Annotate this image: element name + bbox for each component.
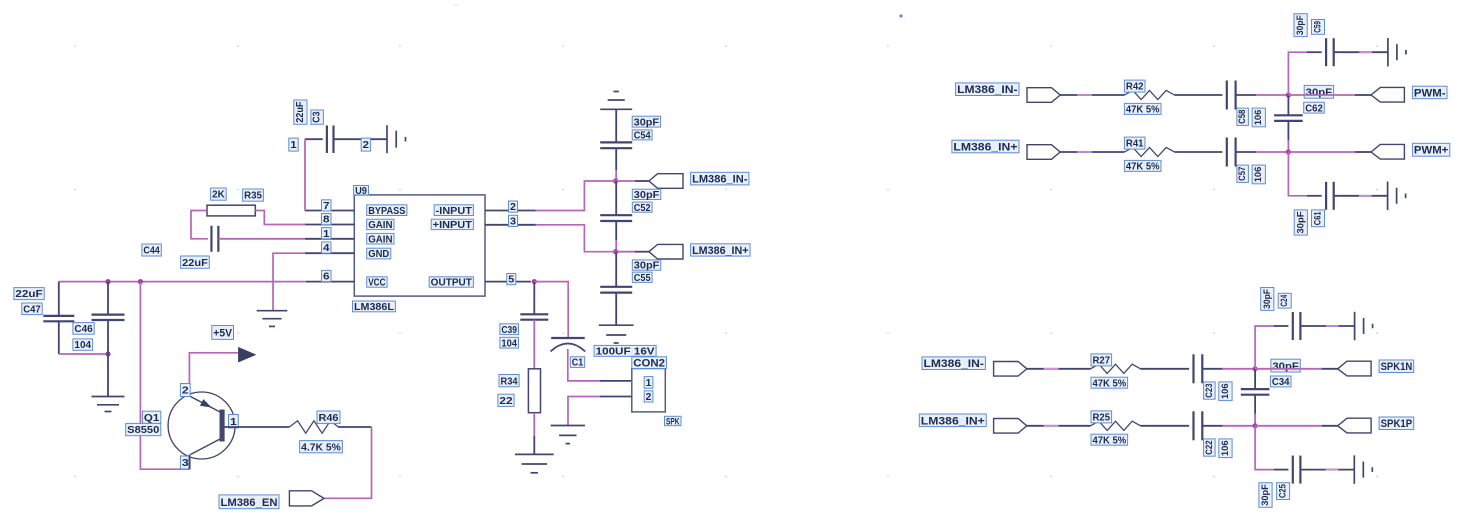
wire junction row1 to PWM- port xyxy=(1288,94,1355,96)
wire R35 right to U9 pin 8 xyxy=(255,211,304,225)
U9 pin 1 stub xyxy=(305,238,355,240)
svg-text:PWM-: PWM- xyxy=(1414,87,1446,99)
svg-text:6: 6 xyxy=(323,272,330,283)
wire C59 to ground xyxy=(1334,51,1388,53)
svg-text:R27: R27 xyxy=(1093,356,1111,367)
capacitor C24 plates xyxy=(1292,312,1294,340)
pin number 1 of CON2 xyxy=(644,377,653,389)
svg-text:+5V: +5V xyxy=(213,327,232,339)
inverted ground above C54 xyxy=(600,108,632,110)
refdes C47 xyxy=(22,303,42,315)
wire R25 to C22 xyxy=(1141,425,1190,427)
refdes R42 xyxy=(1124,80,1145,93)
VCC rail wire to U9 pin 6 xyxy=(59,281,306,283)
value 4.7K 5% of R46 xyxy=(300,441,343,454)
junction node row4 xyxy=(1253,423,1258,428)
ground right of C25 xyxy=(1353,455,1355,484)
wire junction row2 down to C61 branch xyxy=(1288,152,1307,196)
value 22 of R34 xyxy=(498,394,514,407)
wire to C61 xyxy=(1307,195,1322,197)
svg-text:VCC: VCC xyxy=(368,278,385,289)
resistor R34 body xyxy=(528,369,540,413)
U9 pin name BYPASS xyxy=(367,205,407,217)
svg-text:3: 3 xyxy=(182,458,189,469)
port LM386_IN+ tag (left schematic) xyxy=(649,244,683,259)
wire U9 pin5 junction xyxy=(532,279,537,284)
U9 pin 3 stub xyxy=(485,224,536,226)
wire U9 pin 2 to junction xyxy=(536,181,616,211)
U9 pin name GAIN (2) xyxy=(367,233,394,245)
refdes C34 xyxy=(1270,376,1291,388)
svg-text:R41: R41 xyxy=(1126,139,1144,150)
pin number 2 of CON2 xyxy=(644,391,653,403)
U9 pin name GND xyxy=(367,248,391,260)
pin number 2 of Q1 xyxy=(180,384,190,397)
svg-text:C25: C25 xyxy=(1278,484,1289,498)
U9 pin name -INPUT xyxy=(434,205,473,217)
refdes R46 xyxy=(317,411,340,424)
svg-text:PWM+: PWM+ xyxy=(1414,145,1448,157)
value 106 of C22 (rotated) xyxy=(1219,439,1232,458)
capacitor C46 bottom lead xyxy=(107,320,109,397)
wire junction row4 down to C25 branch xyxy=(1255,426,1274,470)
wire input tag to R27 xyxy=(1027,368,1091,370)
svg-text:R42: R42 xyxy=(1126,82,1144,93)
svg-text:C58: C58 xyxy=(1237,110,1248,124)
wire pin5 junction to capacitor C1 xyxy=(534,282,568,338)
svg-text:47K 5%: 47K 5% xyxy=(1126,105,1160,116)
wire C58 to junction row1 xyxy=(1236,94,1256,96)
svg-text:22uF: 22uF xyxy=(182,258,208,269)
value 106 of C58 (rotated) xyxy=(1252,108,1265,127)
pin number 2 xyxy=(509,201,518,213)
value 47K 5% of R25 xyxy=(1091,434,1128,446)
svg-text:C23: C23 xyxy=(1204,383,1215,397)
port input tag row4 xyxy=(994,419,1027,434)
svg-text:1: 1 xyxy=(646,378,652,389)
wire R34 to ground xyxy=(533,413,535,436)
svg-text:30pF: 30pF xyxy=(1262,289,1273,309)
wire R27 to C23 xyxy=(1141,368,1190,370)
svg-text:-INPUT: -INPUT xyxy=(436,206,472,217)
value 104 of C46 xyxy=(73,339,93,351)
capacitor C39 plates xyxy=(520,313,548,315)
svg-text:30pF: 30pF xyxy=(1272,360,1299,372)
refdes C54 xyxy=(632,130,652,142)
svg-text:106: 106 xyxy=(1220,383,1231,399)
svg-text:104: 104 xyxy=(74,340,91,351)
wire C3 pin1 down to U9 pin 7 xyxy=(304,139,306,210)
refdes C25 (rotated) xyxy=(1277,483,1290,500)
value 47K 5% of R27 xyxy=(1091,377,1128,389)
Q1 pin 2 wire to +5V xyxy=(189,353,238,397)
wire C39 to R34 xyxy=(533,320,535,369)
ground right of C59 xyxy=(1387,38,1389,66)
value 30pF of C34 xyxy=(1271,359,1300,372)
svg-text:30pF: 30pF xyxy=(1295,211,1306,233)
pin number 3 xyxy=(509,215,518,227)
net label LM386_IN+ (left schematic) xyxy=(691,244,751,257)
svg-text:U9: U9 xyxy=(355,186,367,197)
ground under R34 xyxy=(515,453,554,455)
svg-text:GAIN: GAIN xyxy=(368,220,392,231)
wire U9 pin 3 to junction xyxy=(536,225,616,252)
capacitor C22 plates xyxy=(1192,411,1194,440)
port SPK1N tag xyxy=(1338,361,1371,376)
svg-text:47K 5%: 47K 5% xyxy=(1126,162,1160,173)
wire to C59 xyxy=(1307,51,1322,53)
capacitor C55 plates xyxy=(600,286,632,288)
pin number 8 xyxy=(322,214,332,226)
svg-text:100UF 16V: 100UF 16V xyxy=(596,346,655,357)
svg-text:BYPASS: BYPASS xyxy=(368,206,405,217)
svg-text:GND: GND xyxy=(368,249,389,260)
refdes C61 (rotated) xyxy=(1312,210,1325,227)
refdes C44 xyxy=(142,244,161,257)
svg-text:C44: C44 xyxy=(143,246,160,257)
wire C47 bottom to C46 bottom xyxy=(59,353,108,355)
resistor R35 body xyxy=(207,205,255,216)
svg-text:106: 106 xyxy=(1220,440,1231,456)
pin number 3 of Q1 xyxy=(180,456,190,469)
value 104 of C39 xyxy=(500,337,519,349)
+5V power arrow xyxy=(238,347,255,362)
wire C44 right to U9 pin 1 xyxy=(218,238,304,240)
wire C1 to CON2 pin 1 xyxy=(568,349,600,381)
U9 pin 7 stub xyxy=(305,210,355,212)
svg-text:30pF: 30pF xyxy=(1260,484,1271,506)
svg-text:106: 106 xyxy=(1253,167,1264,183)
wire input tag to R42 xyxy=(1060,94,1124,96)
wire junction to LM386_IN- port xyxy=(616,180,635,182)
value 30pF of C25 (rotated) xyxy=(1259,483,1272,508)
port LM386_IN- tag (left schematic) xyxy=(649,174,683,189)
wire R41 to C57 xyxy=(1175,151,1223,153)
capacitor C58 plates xyxy=(1226,81,1228,110)
refdes R27 xyxy=(1091,354,1112,367)
capacitor C46 top lead xyxy=(107,282,109,315)
port PWM- tag xyxy=(1371,87,1404,102)
port input tag row3 xyxy=(994,362,1027,377)
value 30pF of C61 (rotated) xyxy=(1294,210,1307,235)
svg-text:LM386_IN-: LM386_IN- xyxy=(692,174,748,186)
refdes C57 (rotated) xyxy=(1237,165,1249,182)
svg-text:LM386_IN+: LM386_IN+ xyxy=(921,415,985,427)
svg-text:R25: R25 xyxy=(1093,413,1111,424)
junction node row3 xyxy=(1253,366,1258,371)
svg-text:2: 2 xyxy=(510,202,516,213)
value 30pF of C54 xyxy=(632,116,660,128)
svg-text:C22: C22 xyxy=(1204,440,1215,454)
value 30pF of C62 xyxy=(1304,85,1333,98)
svg-text:3: 3 xyxy=(510,217,516,228)
svg-text:C24: C24 xyxy=(1279,294,1290,306)
svg-text:1: 1 xyxy=(290,140,297,151)
port input tag row2 xyxy=(1027,145,1060,160)
svg-text:C3: C3 xyxy=(312,111,323,123)
resistor R25 zigzag xyxy=(1091,421,1141,430)
svg-text:R34: R34 xyxy=(501,376,518,387)
svg-text:106: 106 xyxy=(1253,110,1264,126)
capacitor C39 top lead xyxy=(533,282,535,315)
capacitor C59 plates xyxy=(1325,38,1327,66)
value 106 of C23 (rotated) xyxy=(1219,382,1232,401)
wire C22 to junction row4 xyxy=(1202,425,1222,427)
svg-text:C1: C1 xyxy=(572,358,584,369)
wire U9 pin 4 to ground xyxy=(273,253,305,311)
svg-text:1: 1 xyxy=(323,229,330,240)
svg-text:LM386_EN: LM386_EN xyxy=(221,497,278,509)
transistor Q1 emitter line with arrow xyxy=(191,397,222,413)
svg-text:2K: 2K xyxy=(212,190,225,201)
port SPK1P tag xyxy=(1338,418,1371,433)
svg-text:8: 8 xyxy=(323,215,330,226)
net label LM386_IN+ (row4) xyxy=(919,414,986,427)
net label SPK1N xyxy=(1379,360,1414,373)
wire junction to LM386_IN+ port xyxy=(616,251,635,253)
U9 refdes label xyxy=(354,186,369,197)
value 30pF of C24 (rotated) xyxy=(1261,288,1274,311)
svg-text:OUTPUT: OUTPUT xyxy=(431,278,472,289)
svg-text:C52: C52 xyxy=(634,203,651,214)
net label PWM+ xyxy=(1412,143,1449,156)
wire R42 to C58 xyxy=(1175,94,1223,96)
U9 pin name GAIN xyxy=(367,219,394,231)
ground under C46 xyxy=(92,396,125,398)
junction node row2 xyxy=(1286,149,1291,154)
refdes C58 (rotated) xyxy=(1237,108,1249,125)
stray magenta dot xyxy=(899,14,902,17)
svg-text:C57: C57 xyxy=(1237,167,1248,181)
pin number 5 xyxy=(507,274,516,286)
svg-text:104: 104 xyxy=(501,338,517,349)
connector CON2 body xyxy=(632,369,666,412)
Q1 pin 3 stub xyxy=(188,455,190,470)
wire junction row2 to PWM+ port xyxy=(1288,151,1355,153)
net label LM386_IN- (row1) xyxy=(956,83,1019,96)
refdes C22 (rotated) xyxy=(1204,439,1216,456)
wire junction row3 up to C24 branch xyxy=(1255,326,1274,369)
ground right of C24 xyxy=(1354,312,1356,341)
capacitor C47 bottom lead xyxy=(58,321,60,354)
ground under C55 xyxy=(599,324,634,326)
+5V label xyxy=(212,326,234,340)
capacitor C34 top lead xyxy=(1254,369,1256,389)
capacitor C62 top lead xyxy=(1287,95,1289,115)
svg-text:LM386_IN-: LM386_IN- xyxy=(957,84,1018,96)
junction node pin3 net xyxy=(613,249,618,254)
wire junction row4 to SPK1P port xyxy=(1255,425,1322,427)
pin number 2 of C3 xyxy=(361,138,370,151)
U9 pin 4 stub xyxy=(305,252,355,254)
svg-text:C34: C34 xyxy=(1272,377,1290,388)
U9 pin name +INPUT xyxy=(431,219,473,231)
svg-text:C46: C46 xyxy=(74,324,93,335)
svg-text:C62: C62 xyxy=(1305,103,1323,114)
U9 pin 8 stub xyxy=(305,224,355,226)
svg-text:4: 4 xyxy=(323,243,330,254)
capacitor C46 plates xyxy=(92,314,125,316)
port PWM+ tag xyxy=(1371,144,1404,159)
pin number 1 of Q1 xyxy=(229,415,239,429)
ground under pin 4 xyxy=(257,310,288,312)
capacitor C3 pin1 wire xyxy=(305,138,323,140)
port input tag row1 xyxy=(1027,88,1060,103)
part S8550 of Q1 xyxy=(126,423,161,436)
net label LM386_EN xyxy=(219,495,279,509)
capacitor C54 bottom lead xyxy=(615,148,617,170)
net label LM386_IN- (left schematic) xyxy=(691,172,749,185)
wire to C25 xyxy=(1274,469,1289,471)
svg-text:2: 2 xyxy=(646,392,652,403)
refdes C46 xyxy=(73,323,94,335)
wire to C24 xyxy=(1274,325,1289,327)
value 47K 5% of R42 xyxy=(1124,103,1161,115)
pin number 1 of C3 xyxy=(289,138,298,151)
capacitor C57 plates xyxy=(1226,138,1228,167)
wire input tag to R25 xyxy=(1027,425,1091,427)
wire CON2 pin 2 to ground xyxy=(600,396,632,398)
net label LM386_IN+ (row2) xyxy=(952,140,1019,153)
svg-text:7: 7 xyxy=(323,201,330,212)
grid dots xyxy=(74,4,1378,477)
capacitor C54 plates xyxy=(600,141,632,143)
U9 pin 6 stub xyxy=(306,281,355,283)
resistor R42 zigzag xyxy=(1125,90,1175,99)
value 2K of R35 xyxy=(211,188,227,201)
Q1 pin 1 wire to R46 xyxy=(224,426,289,428)
wire junction row3 to SPK1N port xyxy=(1255,368,1322,370)
wire C57 to junction row2 xyxy=(1236,151,1256,153)
capacitor C52 plates xyxy=(600,214,632,216)
refdes C3 (rotated) xyxy=(311,110,324,124)
capacitor C52 bottom lead xyxy=(615,221,617,240)
refdes C55 xyxy=(632,272,652,284)
svg-text:47K 5%: 47K 5% xyxy=(1093,378,1127,389)
refdes C59 (rotated) xyxy=(1312,20,1325,35)
value 22uF of C47 xyxy=(14,288,44,301)
capacitor C55 top lead xyxy=(615,252,617,287)
capacitor C61 plates xyxy=(1325,182,1327,210)
svg-text:C55: C55 xyxy=(634,273,651,284)
svg-text:4.7K 5%: 4.7K 5% xyxy=(301,442,341,453)
capacitor C25 plates xyxy=(1292,456,1294,484)
capacitor C54 top lead xyxy=(615,109,617,142)
value 30pF of C55 xyxy=(632,260,661,272)
ground right of C3 xyxy=(386,125,388,153)
svg-text:30pF: 30pF xyxy=(634,261,660,272)
svg-text:2: 2 xyxy=(363,140,370,151)
refdes C23 (rotated) xyxy=(1204,382,1216,399)
value 30pF of C52 xyxy=(632,189,661,201)
svg-text:SPK: SPK xyxy=(666,416,680,427)
value 106 of C57 (rotated) xyxy=(1252,165,1265,184)
svg-text:LM386_IN+: LM386_IN+ xyxy=(692,245,749,257)
capacitor C44 plates xyxy=(210,226,212,252)
wire junction row1 up to C59 branch xyxy=(1288,52,1307,95)
resistor R46 zigzag xyxy=(289,421,338,433)
capacitor C3 pin2 wire xyxy=(334,138,388,140)
refdes R41 xyxy=(1124,137,1145,150)
capacitor C1 curved plate xyxy=(551,344,586,352)
wire C61 to ground xyxy=(1334,195,1388,197)
wire C23 to junction row3 xyxy=(1202,368,1222,370)
svg-text:C39: C39 xyxy=(501,325,517,336)
resistor R27 zigzag xyxy=(1091,364,1141,373)
svg-text:S8550: S8550 xyxy=(127,425,160,436)
refdes C24 (rotated) xyxy=(1278,293,1291,308)
svg-text:SPK1N: SPK1N xyxy=(1381,361,1413,373)
svg-text:R46: R46 xyxy=(319,413,339,424)
U9 pin name OUTPUT xyxy=(429,277,473,289)
port LM386_EN tag xyxy=(289,491,324,506)
transistor Q1 collector line xyxy=(191,439,222,455)
value 100UF 16V of C1 xyxy=(594,345,656,357)
refdes C1 xyxy=(570,357,584,369)
op-amp U9 body xyxy=(354,195,485,296)
svg-text:GAIN: GAIN xyxy=(368,234,392,245)
value 47K 5% of R41 xyxy=(1124,160,1161,172)
svg-text:30pF: 30pF xyxy=(634,190,660,201)
capacitor C23 plates xyxy=(1192,354,1194,383)
U9 pin 5 stub xyxy=(485,281,531,283)
svg-text:5: 5 xyxy=(508,275,514,286)
ground under CON2 pin2 wire xyxy=(551,425,585,427)
refdes Q1 xyxy=(142,411,160,424)
pin number 6 xyxy=(322,270,332,282)
pin number 1 xyxy=(322,228,332,240)
junction node pin2 net xyxy=(613,178,618,183)
transistor Q1 circle xyxy=(168,392,235,459)
svg-text:22uF: 22uF xyxy=(15,289,42,300)
value 30pF of C59 (rotated) xyxy=(1294,14,1307,37)
wire R35 left to C44 left xyxy=(191,211,208,239)
capacitor C34 plates xyxy=(1241,388,1270,390)
U9 part label LM386L xyxy=(353,301,396,313)
capacitor C55 bottom lead xyxy=(615,292,617,325)
capacitor C52 top lead xyxy=(615,181,617,215)
junction node at C46 top xyxy=(105,279,110,284)
pin number 7 xyxy=(322,200,332,212)
wire C24 to ground xyxy=(1300,325,1354,327)
svg-text:22uF: 22uF xyxy=(295,102,306,123)
refdes C52 xyxy=(632,202,652,214)
refdes C62 xyxy=(1304,102,1325,114)
svg-text:30pF: 30pF xyxy=(1306,87,1333,99)
junction node at C46 bottom xyxy=(105,351,110,356)
junction node at Q1 branch xyxy=(138,279,143,284)
svg-text:LM386_IN-: LM386_IN- xyxy=(924,358,985,370)
U9 pin 2 stub xyxy=(485,210,536,212)
capacitor C47 top lead xyxy=(58,282,60,316)
svg-text:Q1: Q1 xyxy=(144,413,160,424)
svg-text:SPK1P: SPK1P xyxy=(1381,418,1413,430)
wire C25 to ground xyxy=(1300,469,1354,471)
junction node row1 xyxy=(1286,92,1291,97)
net label LM386_IN- (row3) xyxy=(922,357,985,370)
svg-text:30pF: 30pF xyxy=(1295,15,1306,35)
svg-text:LM386L: LM386L xyxy=(354,302,394,313)
refdes CON2 label xyxy=(632,357,667,370)
wire from VCC rail down to Q1 pin 3 xyxy=(140,282,189,470)
net label SPK1P xyxy=(1379,417,1414,430)
svg-text:+INPUT: +INPUT xyxy=(433,220,472,231)
svg-text:LM386_IN+: LM386_IN+ xyxy=(953,141,1017,153)
svg-text:C47: C47 xyxy=(23,304,41,315)
net label PWM- xyxy=(1412,86,1447,99)
transistor Q1 base bar xyxy=(220,410,225,441)
capacitor C47 plates xyxy=(43,315,74,317)
